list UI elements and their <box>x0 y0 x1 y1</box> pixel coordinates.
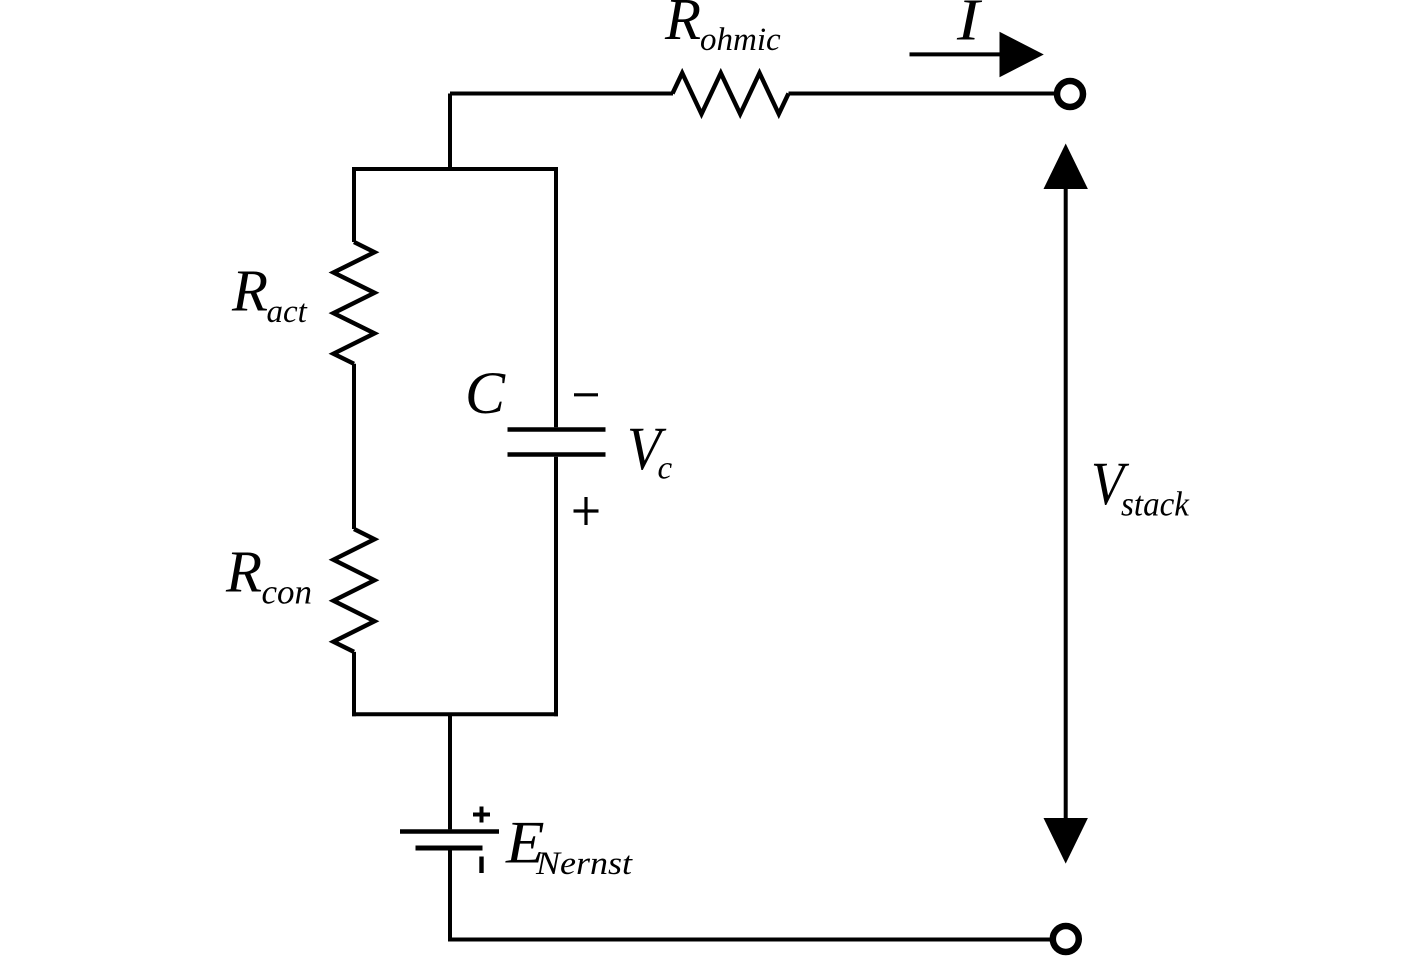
svg-text:R: R <box>225 539 262 605</box>
wire: top horizontal right segment (R_ohmic to terminal) <box>789 92 1056 96</box>
current arrow I <box>910 52 1002 56</box>
label V_stack <box>1091 451 1190 523</box>
battery E_Nernst long plate (+) <box>400 829 499 834</box>
terminal (bottom right, open circle) <box>1053 926 1079 952</box>
resistor R_con <box>334 529 375 652</box>
V_stack measurement arrow (double-headed) <box>1064 187 1068 820</box>
wire: bottom horizontal <box>448 938 1051 942</box>
svg-text:con: con <box>262 573 313 612</box>
battery plus mark <box>473 807 490 823</box>
battery minus mark (vertical tick) <box>479 857 483 874</box>
battery E_Nernst short plate (-) <box>416 846 483 851</box>
wire: right branch upper <box>554 167 558 427</box>
polarity plus (capacitor) <box>574 497 599 525</box>
wire: left branch lower <box>352 652 356 716</box>
wire: RC block bottom <box>352 712 558 716</box>
label R_ohmic <box>664 0 781 58</box>
polarity minus (capacitor) <box>574 393 598 396</box>
label Vc <box>627 416 673 487</box>
wire: RC block top <box>352 167 558 171</box>
label R_con <box>225 539 312 612</box>
resistor R_act <box>334 242 375 364</box>
label E_Nernst <box>505 810 633 882</box>
wire: top horizontal left segment (node A to R_ohmic) <box>450 92 673 96</box>
capacitor C <box>508 427 606 432</box>
wire: right branch lower <box>554 457 558 717</box>
wire: vertical stub from top wire to RC block <box>448 94 452 170</box>
svg-text:R: R <box>664 0 701 52</box>
svg-text:C: C <box>465 360 506 426</box>
wire: battery to bottom wire <box>448 850 452 941</box>
svg-text:c: c <box>658 451 673 487</box>
svg-text:act: act <box>267 294 308 330</box>
wire: stub from RC block down to battery <box>448 714 452 829</box>
wire: left branch upper <box>352 167 356 242</box>
svg-text:I: I <box>956 0 982 53</box>
svg-text:ohmic: ohmic <box>700 22 781 58</box>
resistor R_ohmic <box>673 73 789 114</box>
svg-text:stack: stack <box>1121 485 1190 524</box>
svg-text:Nernst: Nernst <box>535 846 633 882</box>
label R_act <box>231 258 308 330</box>
wire: left branch middle <box>352 364 356 529</box>
svg-text:R: R <box>231 258 268 324</box>
terminal (top right, open circle) <box>1057 81 1083 107</box>
